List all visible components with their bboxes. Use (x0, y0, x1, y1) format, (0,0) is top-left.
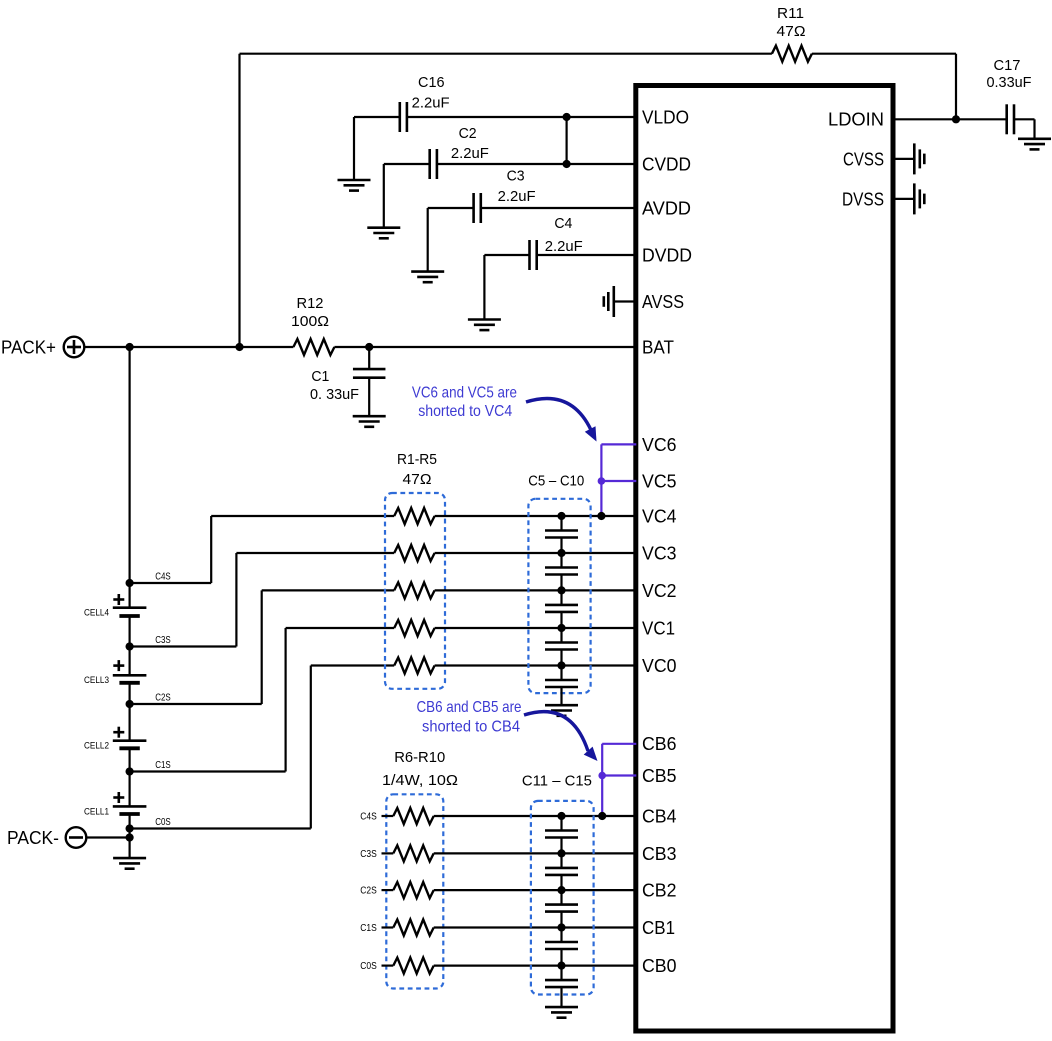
pin label BAT (642, 337, 674, 357)
label C2 value 2.2uF (451, 145, 489, 162)
svg-text:C11 – C15: C11 – C15 (522, 773, 592, 790)
wire DVDD net to IC (537, 254, 637, 256)
svg-text:shorted to VC4: shorted to VC4 (418, 403, 512, 420)
pin label CB5 (642, 766, 677, 786)
resistor R5 (394, 658, 434, 674)
label R6-R10 value 1/4W 10 (382, 772, 458, 789)
wire R11 to corner (812, 53, 956, 55)
pin label DVSS (842, 189, 884, 209)
capacitor C17 (1007, 104, 1014, 134)
capacitor C5 (545, 516, 578, 553)
svg-text:VC5: VC5 (642, 471, 677, 491)
node BAT chain junction (126, 343, 134, 351)
label R11 value 47 (777, 23, 806, 40)
wire VLDO net to IC (407, 116, 636, 118)
resistor R7 (393, 845, 433, 861)
pin label DVDD (642, 245, 692, 265)
capacitor C1 (353, 369, 386, 378)
wire C2S horizontal (130, 703, 262, 705)
wire CVSS stub (893, 158, 915, 160)
wire VC6 jumper (601, 443, 636, 445)
capacitor C8 (545, 628, 578, 666)
pin label VC0 (642, 656, 677, 676)
capacitor C2 (430, 149, 437, 179)
node CB0 cap junction (557, 962, 565, 970)
pin label CB3 (642, 844, 677, 864)
svg-text:CELL1: CELL1 (84, 806, 109, 817)
annotation VC6/VC5 text line 2 (418, 403, 512, 420)
wire R7 to IC (434, 852, 637, 854)
svg-text:47Ω: 47Ω (403, 471, 432, 488)
label CELL2 plus (113, 727, 124, 738)
svg-text:CELL3: CELL3 (84, 675, 109, 686)
label net C2S (155, 693, 171, 704)
wire AVSS stub (614, 300, 637, 302)
ground CVSS (914, 143, 924, 174)
pin label VC5 (642, 471, 677, 491)
label net C3S (155, 635, 171, 646)
wire C3S riser (235, 553, 237, 647)
svg-text:CB3: CB3 (642, 844, 677, 864)
pin label CB6 (642, 734, 677, 754)
label net C3S lower (360, 849, 377, 860)
svg-text:DVDD: DVDD (642, 245, 692, 265)
pin label VC6 (642, 435, 677, 455)
wire DVDD net C4 left stub (484, 254, 529, 256)
label C16 value 2.2uF (412, 95, 450, 112)
label net C4S lower (360, 812, 377, 823)
label CELL1 plus (113, 792, 124, 803)
label R11 (777, 5, 804, 22)
wire R8 to IC (434, 889, 637, 891)
label C4 value 2.2uF (545, 238, 583, 255)
pin label VLDO (642, 107, 689, 127)
label C3 (507, 167, 525, 184)
wire C1 bottom lead (368, 378, 370, 417)
svg-text:C0S: C0S (360, 961, 377, 972)
svg-text:CELL2: CELL2 (84, 741, 109, 752)
wire C1S riser (285, 628, 287, 772)
label C1 value 0. 33uF (310, 386, 359, 403)
annotation VC6/VC5 text line 1 (412, 385, 517, 402)
pin label VC1 (642, 618, 675, 638)
svg-text:VC6: VC6 (642, 435, 677, 455)
svg-text:100Ω: 100Ω (291, 313, 329, 330)
wire battery stack segment above CELL1 (129, 748, 131, 806)
wire CB5 jumper (602, 774, 636, 776)
wire VLDO-CVDD tie (565, 117, 567, 164)
svg-text:VC6 and VC5 are: VC6 and VC5 are (412, 385, 517, 402)
capacitor C16 (400, 102, 407, 132)
wire CVDD net C2 left stub (384, 163, 430, 165)
ground C17 (1018, 139, 1051, 150)
pin label CB1 (642, 918, 675, 938)
pin label CB0 (642, 956, 677, 976)
svg-text:C2S: C2S (360, 886, 377, 897)
wire C3 ground riser (427, 208, 429, 272)
wire R1 to IC (435, 515, 637, 517)
wire C3S to resistor (236, 552, 394, 554)
capacitor C12 (545, 853, 578, 890)
wire R10 to IC (434, 964, 637, 966)
node C3S (126, 642, 134, 650)
label R1-R5 (397, 451, 437, 468)
pin label AVSS (642, 292, 684, 312)
pin label CB2 (642, 881, 677, 901)
node VC2 cap junction (557, 586, 565, 594)
wire C2S stub (382, 889, 394, 891)
ground C5-C10 chain (545, 705, 578, 716)
wire top rail to R11 (240, 53, 772, 55)
wire C0S stub (382, 964, 394, 966)
wire battery stack below CELL1 (129, 814, 131, 858)
wire C1S stub (382, 926, 394, 928)
node VC5 jumper junction (598, 477, 606, 485)
svg-text:CB2: CB2 (642, 881, 677, 901)
wire battery stack from PACK+ to CELL4 (129, 347, 131, 608)
wire DVSS stub (893, 198, 915, 200)
svg-text:C17: C17 (994, 57, 1021, 74)
label C17 (994, 57, 1021, 74)
wire C0S riser (310, 666, 312, 829)
svg-text:PACK-: PACK- (7, 828, 59, 848)
label C17 value 0.33uF (987, 74, 1032, 91)
svg-text:C2S: C2S (155, 693, 171, 704)
label net C1S (155, 760, 171, 771)
svg-text:CB5: CB5 (642, 766, 677, 786)
svg-text:C3: C3 (507, 167, 525, 184)
ground C1 (353, 416, 386, 427)
label CELL3 plus (113, 660, 124, 671)
svg-text:2.2uF: 2.2uF (451, 145, 489, 162)
label net C4S (155, 572, 171, 583)
pin label LDOIN (828, 110, 884, 130)
svg-text:47Ω: 47Ω (777, 23, 806, 40)
wire C4 ground riser (483, 255, 485, 320)
svg-text:VC4: VC4 (642, 506, 677, 526)
svg-text:C1S: C1S (155, 760, 171, 771)
node CB4 jumper junction (598, 812, 606, 820)
label R12 value 100 (291, 313, 329, 330)
node C0S (126, 824, 134, 832)
wire BAT riser to top (238, 54, 240, 347)
wire battery stack segment above CELL2 (129, 683, 131, 741)
ground C11-C15 chain (545, 1007, 578, 1018)
label PACK- (7, 828, 59, 848)
resistor R11 (772, 46, 812, 62)
label C11-C15 (522, 773, 592, 790)
wire C1S horizontal (130, 770, 286, 772)
capacitor C9 (545, 666, 578, 706)
node VC1 cap junction (557, 624, 565, 632)
svg-text:C4S: C4S (155, 572, 171, 583)
svg-text:VC0: VC0 (642, 656, 677, 676)
capacitor C11 (545, 816, 578, 853)
svg-text:R11: R11 (777, 5, 804, 22)
box R6-R10 dashed (386, 794, 443, 988)
label CELL3 (84, 675, 109, 686)
annotation VC arrow (526, 399, 597, 442)
svg-text:LDOIN: LDOIN (828, 110, 884, 130)
battery CELL1 (113, 806, 147, 814)
wire R5 to IC (435, 664, 637, 666)
pin label VC2 (642, 581, 677, 601)
svg-text:AVSS: AVSS (642, 292, 684, 312)
node PACK- junction (126, 833, 134, 841)
label net C0S lower (360, 961, 377, 972)
wire C17 to ground corner (1014, 119, 1035, 139)
resistor R4 (394, 620, 434, 636)
svg-text:C4: C4 (554, 215, 572, 232)
wire R9 to IC (434, 926, 637, 928)
pin label CVSS (843, 149, 884, 169)
wire C4S horizontal (130, 582, 212, 584)
battery CELL3 (113, 675, 147, 683)
svg-text:CELL4: CELL4 (84, 608, 109, 619)
capacitor C14 (545, 928, 578, 966)
battery CELL2 (113, 741, 147, 749)
label C3 value 2.2uF (498, 188, 536, 205)
ground C4 (468, 320, 501, 331)
resistor R6 (393, 808, 433, 824)
ground DVSS (914, 183, 924, 214)
wire AVDD net C3 left stub (428, 207, 474, 209)
resistor R2 (394, 545, 434, 561)
resistor R3 (394, 582, 434, 598)
svg-text:CB6: CB6 (642, 734, 677, 754)
node C1S (126, 767, 134, 775)
resistor R12 (293, 339, 334, 355)
resistor R8 (393, 882, 433, 898)
wire VLDO net C16 left stub (354, 116, 400, 118)
svg-text:2.2uF: 2.2uF (412, 95, 450, 112)
svg-text:2.2uF: 2.2uF (498, 188, 536, 205)
svg-text:0. 33uF: 0. 33uF (310, 386, 359, 403)
svg-text:C4S: C4S (360, 812, 377, 823)
node CB3 cap junction (557, 849, 565, 857)
label net C2S lower (360, 886, 377, 897)
wire CB6-CB4 vertical jumper (601, 744, 603, 816)
node CB5 jumper junction (598, 772, 606, 780)
svg-text:CVDD: CVDD (642, 154, 691, 174)
wire R3 to IC (435, 589, 637, 591)
node LDOIN junction (952, 115, 960, 123)
capacitor C3 (474, 193, 481, 223)
label C5-C10 (528, 472, 584, 489)
wire C0S horizontal (130, 827, 311, 829)
wire corner down to LDOIN (955, 54, 957, 120)
node VC4 cap junction (557, 512, 565, 520)
svg-text:BAT: BAT (642, 337, 674, 357)
svg-text:C3S: C3S (360, 849, 377, 860)
wire C0S to resistor (311, 664, 394, 666)
label C4 (554, 215, 572, 232)
wire LDOIN to C17 (893, 118, 1007, 120)
svg-text:0.33uF: 0.33uF (987, 74, 1032, 91)
wire R2 to IC (435, 552, 637, 554)
ground C2 (367, 228, 400, 239)
svg-text:C5 – C10: C5 – C10 (528, 472, 584, 489)
svg-text:R12: R12 (297, 295, 324, 312)
pin label AVDD (642, 198, 691, 218)
svg-text:R1-R5: R1-R5 (397, 451, 437, 468)
ground C3 (411, 272, 444, 283)
svg-text:CB0: CB0 (642, 956, 677, 976)
resistor R9 (393, 920, 433, 936)
label CELL4 plus (113, 594, 124, 605)
node VC0 cap junction (557, 661, 565, 669)
resistor R1 (394, 508, 434, 524)
wire C3S horizontal (130, 645, 237, 647)
label R1-R5 value 47 (403, 471, 432, 488)
box R1-R5 dashed (385, 493, 445, 689)
ground battery stack (113, 858, 146, 869)
annotation CB6/CB5 text line 2 (422, 718, 520, 735)
node VC4 jumper junction (597, 512, 605, 520)
battery CELL4 (113, 608, 147, 616)
annotation CB arrow (524, 712, 598, 761)
ground C16 (338, 180, 371, 191)
label PACK+ (1, 337, 56, 357)
svg-text:2.2uF: 2.2uF (545, 238, 583, 255)
wire CB6 jumper (602, 743, 636, 745)
pin label CVDD (642, 154, 691, 174)
label C1 (311, 368, 329, 385)
node CB1 cap junction (557, 923, 565, 931)
svg-text:shorted to CB4: shorted to CB4 (422, 718, 520, 735)
box C5-C10 dashed (528, 499, 590, 693)
pin label VC3 (642, 543, 677, 563)
svg-text:VC1: VC1 (642, 618, 675, 638)
terminal PACK- (66, 827, 87, 848)
wire VC5 jumper (601, 480, 636, 482)
node VC3 cap junction (557, 549, 565, 557)
capacitor C7 (545, 590, 578, 628)
wire C4S stub (382, 815, 394, 817)
node CVDD junction (563, 160, 571, 168)
node VLDO junction (563, 113, 571, 121)
label net C0S (155, 817, 171, 828)
capacitor C6 (545, 553, 578, 590)
capacitor C15 (545, 966, 578, 1008)
svg-text:CB4: CB4 (642, 806, 677, 826)
svg-text:PACK+: PACK+ (1, 337, 56, 357)
wire C4S riser (210, 516, 212, 583)
box C11-C15 dashed (531, 801, 594, 995)
resistor R10 (393, 958, 433, 974)
svg-text:AVDD: AVDD (642, 198, 691, 218)
pin label VC4 (642, 506, 677, 526)
ground AVSS (604, 286, 614, 317)
label R12 (297, 295, 324, 312)
svg-text:C16: C16 (418, 74, 445, 91)
wire CVDD net to IC (437, 163, 636, 165)
node C2S (126, 700, 134, 708)
svg-text:DVSS: DVSS (842, 189, 884, 209)
svg-text:C3S: C3S (155, 635, 171, 646)
wire PACK+ to R12 (84, 346, 293, 348)
wire C1 top lead (368, 347, 370, 369)
svg-text:1/4W, 10Ω: 1/4W, 10Ω (382, 772, 458, 789)
svg-text:C1S: C1S (360, 923, 377, 934)
pin label CB4 (642, 806, 677, 826)
capacitor C13 (545, 890, 578, 927)
wire C2S to resistor (262, 589, 395, 591)
capacitor C4 (530, 240, 537, 270)
svg-text:VC2: VC2 (642, 581, 677, 601)
svg-text:C2: C2 (459, 125, 477, 142)
label CELL4 (84, 608, 109, 619)
wire R12 to IC BAT (334, 346, 636, 348)
wire battery stack segment above CELL3 (129, 616, 131, 675)
label C2 (459, 125, 477, 142)
svg-text:C0S: C0S (155, 817, 171, 828)
label CELL2 (84, 741, 109, 752)
svg-text:R6-R10: R6-R10 (394, 749, 445, 766)
wire C3S stub (382, 852, 394, 854)
label C16 (418, 74, 445, 91)
wire R6 to IC (434, 815, 637, 817)
wire C2 ground riser (383, 164, 385, 228)
svg-text:VLDO: VLDO (642, 107, 689, 127)
IC U1 battery monitor body (636, 86, 893, 1032)
wire R4 to IC (435, 627, 637, 629)
wire C2S riser (261, 590, 263, 704)
node CB4 cap junction (557, 812, 565, 820)
wire PACK- to stack (86, 836, 129, 838)
wire C1S to resistor (286, 627, 395, 629)
terminal PACK+ (64, 337, 85, 358)
node CB2 cap junction (557, 886, 565, 894)
wire AVDD net to IC (481, 207, 637, 209)
label CELL1 (84, 806, 109, 817)
node C4S (126, 579, 134, 587)
annotation CB6/CB5 text line 1 (417, 699, 522, 716)
label R6-R10 (394, 749, 445, 766)
wire C4S to resistor (211, 515, 394, 517)
label net C1S lower (360, 923, 377, 934)
svg-text:CB6 and CB5 are: CB6 and CB5 are (417, 699, 522, 716)
svg-text:VC3: VC3 (642, 543, 677, 563)
svg-text:CB1: CB1 (642, 918, 675, 938)
node BAT riser junction (235, 343, 243, 351)
node C1 junction (365, 343, 373, 351)
svg-text:C1: C1 (311, 368, 329, 385)
wire VC6-VC4 vertical jumper (600, 444, 602, 516)
svg-text:CVSS: CVSS (843, 149, 884, 169)
wire C16 ground riser (353, 117, 355, 180)
